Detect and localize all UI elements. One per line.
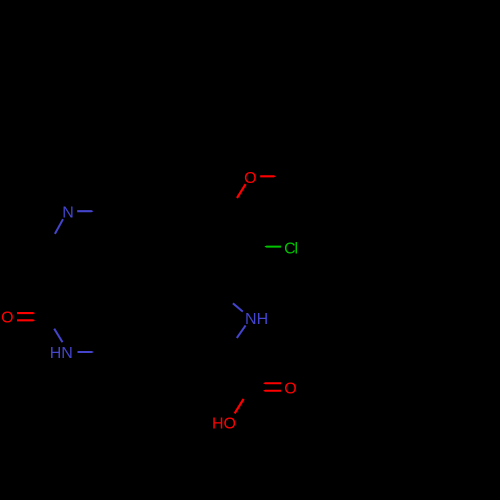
bond O4-C upper-right half-bond — [235, 399, 244, 413]
svg-text:NH: NH — [245, 311, 268, 328]
bond O1=C double bond upper line — [17, 312, 35, 314]
svg-text:HO: HO — [212, 415, 236, 432]
bond O3=C double bond lower line — [263, 390, 281, 392]
bond Cl1-C left half-bond — [264, 246, 281, 248]
bond O2-CH2 right half-bond — [260, 175, 276, 177]
bond O2-C aryl lower-left half-bond — [237, 184, 246, 198]
bond N3-C lower-left half-bond — [237, 325, 246, 338]
bond N3-C upper-left half-bond — [233, 303, 243, 311]
bond N1-C lower-left half-bond — [55, 219, 63, 234]
bond N2-C right half-bond — [78, 351, 95, 353]
svg-text:O: O — [1, 309, 13, 326]
svg-text:O: O — [284, 380, 296, 397]
bond N1-C right half-bond — [77, 210, 93, 212]
bond O1=C double bond lower line — [17, 319, 35, 321]
svg-text:N: N — [62, 205, 74, 222]
svg-text:Cl: Cl — [284, 240, 298, 257]
svg-text:HN: HN — [50, 345, 73, 362]
bond N2-C upper-left half-bond — [54, 329, 62, 343]
bond O3=C double bond upper line — [263, 382, 281, 384]
